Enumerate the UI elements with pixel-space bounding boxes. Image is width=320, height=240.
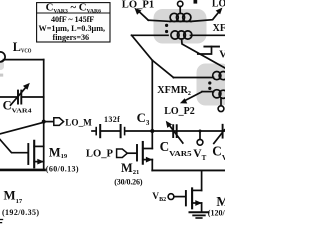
wire M22 drain up to rail (201, 170, 203, 190)
port LO_P (117, 149, 128, 158)
wire M21 source down to tail rail (151, 160, 153, 171)
transistor M19 (27, 144, 29, 164)
svg-text:(120/0: (120/0 (208, 209, 225, 218)
wire cross-couple diagonal A (0, 122, 44, 134)
wire cross-couple diagonal B to M19 gate (0, 140, 27, 153)
corner mark bottom-left (0, 220, 3, 223)
varactor C_VAR6 arrow (cut) (214, 130, 225, 144)
wire tail rail right (152, 169, 225, 171)
wire source rail M17 (thick) (0, 169, 45, 172)
inductor XFMR2 primary coil (cut at edge) (174, 77, 214, 79)
ground (190, 211, 209, 213)
svg-text:XFMR2: XFMR2 (157, 85, 191, 97)
transistor M22 (185, 191, 187, 205)
capacitor C_VAR4 plates (18, 91, 21, 104)
arrow LO_P2 (184, 92, 202, 101)
port circle XFMR2 bottom (220, 98, 222, 106)
node LO_M junction dot (42, 120, 46, 124)
wire V_B2 to M22 gate (174, 196, 185, 198)
svg-text:XFM: XFM (213, 23, 225, 34)
terminal V_T circle (197, 139, 203, 145)
svg-text:fingers=36: fingers=36 (53, 33, 90, 42)
wire XFMR1 primary right + arrow to LO (191, 11, 220, 22)
wire XFMR1 secondary left + kink (132, 34, 168, 36)
transformer XFMR2 gray body (197, 64, 231, 106)
svg-text:M: M (216, 194, 225, 209)
svg-text:(192/0.35): (192/0.35) (2, 208, 39, 217)
svg-text:(30/0.26): (30/0.26) (114, 178, 143, 187)
wire main mixer row (125, 130, 225, 132)
terminal V_B2 circle (168, 194, 174, 200)
polarity dots XFMR2 (208, 81, 211, 84)
varactor C_VAR6 plate (cut at edge) (222, 125, 224, 138)
inductor XFMR1 secondary coil (171, 31, 179, 39)
polarity dots XFMR1 (165, 24, 168, 27)
wire L_VCO to vertical (4, 59, 44, 61)
transistor M21 (136, 145, 138, 161)
VCO inductor gray body (cut at left edge) (0, 61, 4, 71)
transformer XFMR1 gray body (154, 9, 207, 44)
wire diagonal V2 to XFMR2 primary (152, 60, 173, 77)
svg-text:LO_P1: LO_P1 (122, 0, 154, 11)
black square top edge (194, 0, 198, 4)
svg-text:40fF ~ 145fF: 40fF ~ 145fF (51, 15, 94, 24)
varactor C_VAR5 arrow (169, 124, 183, 143)
wire XFMR1 primary left (148, 20, 170, 21)
svg-text:LO: LO (212, 0, 225, 9)
wire LO_P to M21 gate (127, 152, 136, 154)
inductor XFMR2 secondary coil (cut at edge) (202, 91, 214, 93)
wire XFMR1 secondary right to edge (191, 34, 226, 36)
svg-text:132f: 132f (104, 115, 120, 124)
svg-text:LO_M: LO_M (65, 117, 92, 127)
capacitor C3 (120, 125, 122, 137)
inductor XFMR1 primary coil (170, 13, 178, 21)
wire vertical V2 to C3 node (151, 60, 153, 131)
wire M22 source down (201, 203, 203, 212)
wire vertical VCO left branch (43, 60, 45, 170)
svg-text:LO_P: LO_P (86, 149, 114, 160)
wire diagonal kink to vertical V2 (132, 35, 153, 60)
capacitor C_VAR4 arrow (11, 87, 27, 106)
info box (37, 3, 110, 42)
wire C_VAR4 row (0, 96, 44, 98)
port LO_M (54, 118, 64, 126)
terminal V_T stem (199, 131, 201, 139)
wire XFMR1 secondary center tap diagonal (182, 39, 225, 68)
port LO_P1 arrow (138, 11, 148, 21)
varactor C_VAR5 plates (173, 125, 177, 137)
capacitor C2 (92, 130, 96, 132)
wire M21 drain up to node (151, 131, 153, 149)
supply tap symbol (T) (198, 47, 212, 54)
wire between caps (101, 130, 120, 132)
inductor L_VCO end loop (cut at left edge) (0, 52, 5, 62)
svg-text:W=1μm, L=0.3μm,: W=1μm, L=0.3μm, (39, 24, 106, 33)
wire LO_M stub (44, 121, 54, 123)
node C3 junction (150, 129, 154, 133)
svg-text:V: V (219, 49, 225, 60)
svg-text:(60/0.13): (60/0.13) (46, 165, 79, 174)
port circle XFMR1 center tap (178, 1, 183, 6)
svg-text:LO_P2: LO_P2 (164, 106, 195, 117)
